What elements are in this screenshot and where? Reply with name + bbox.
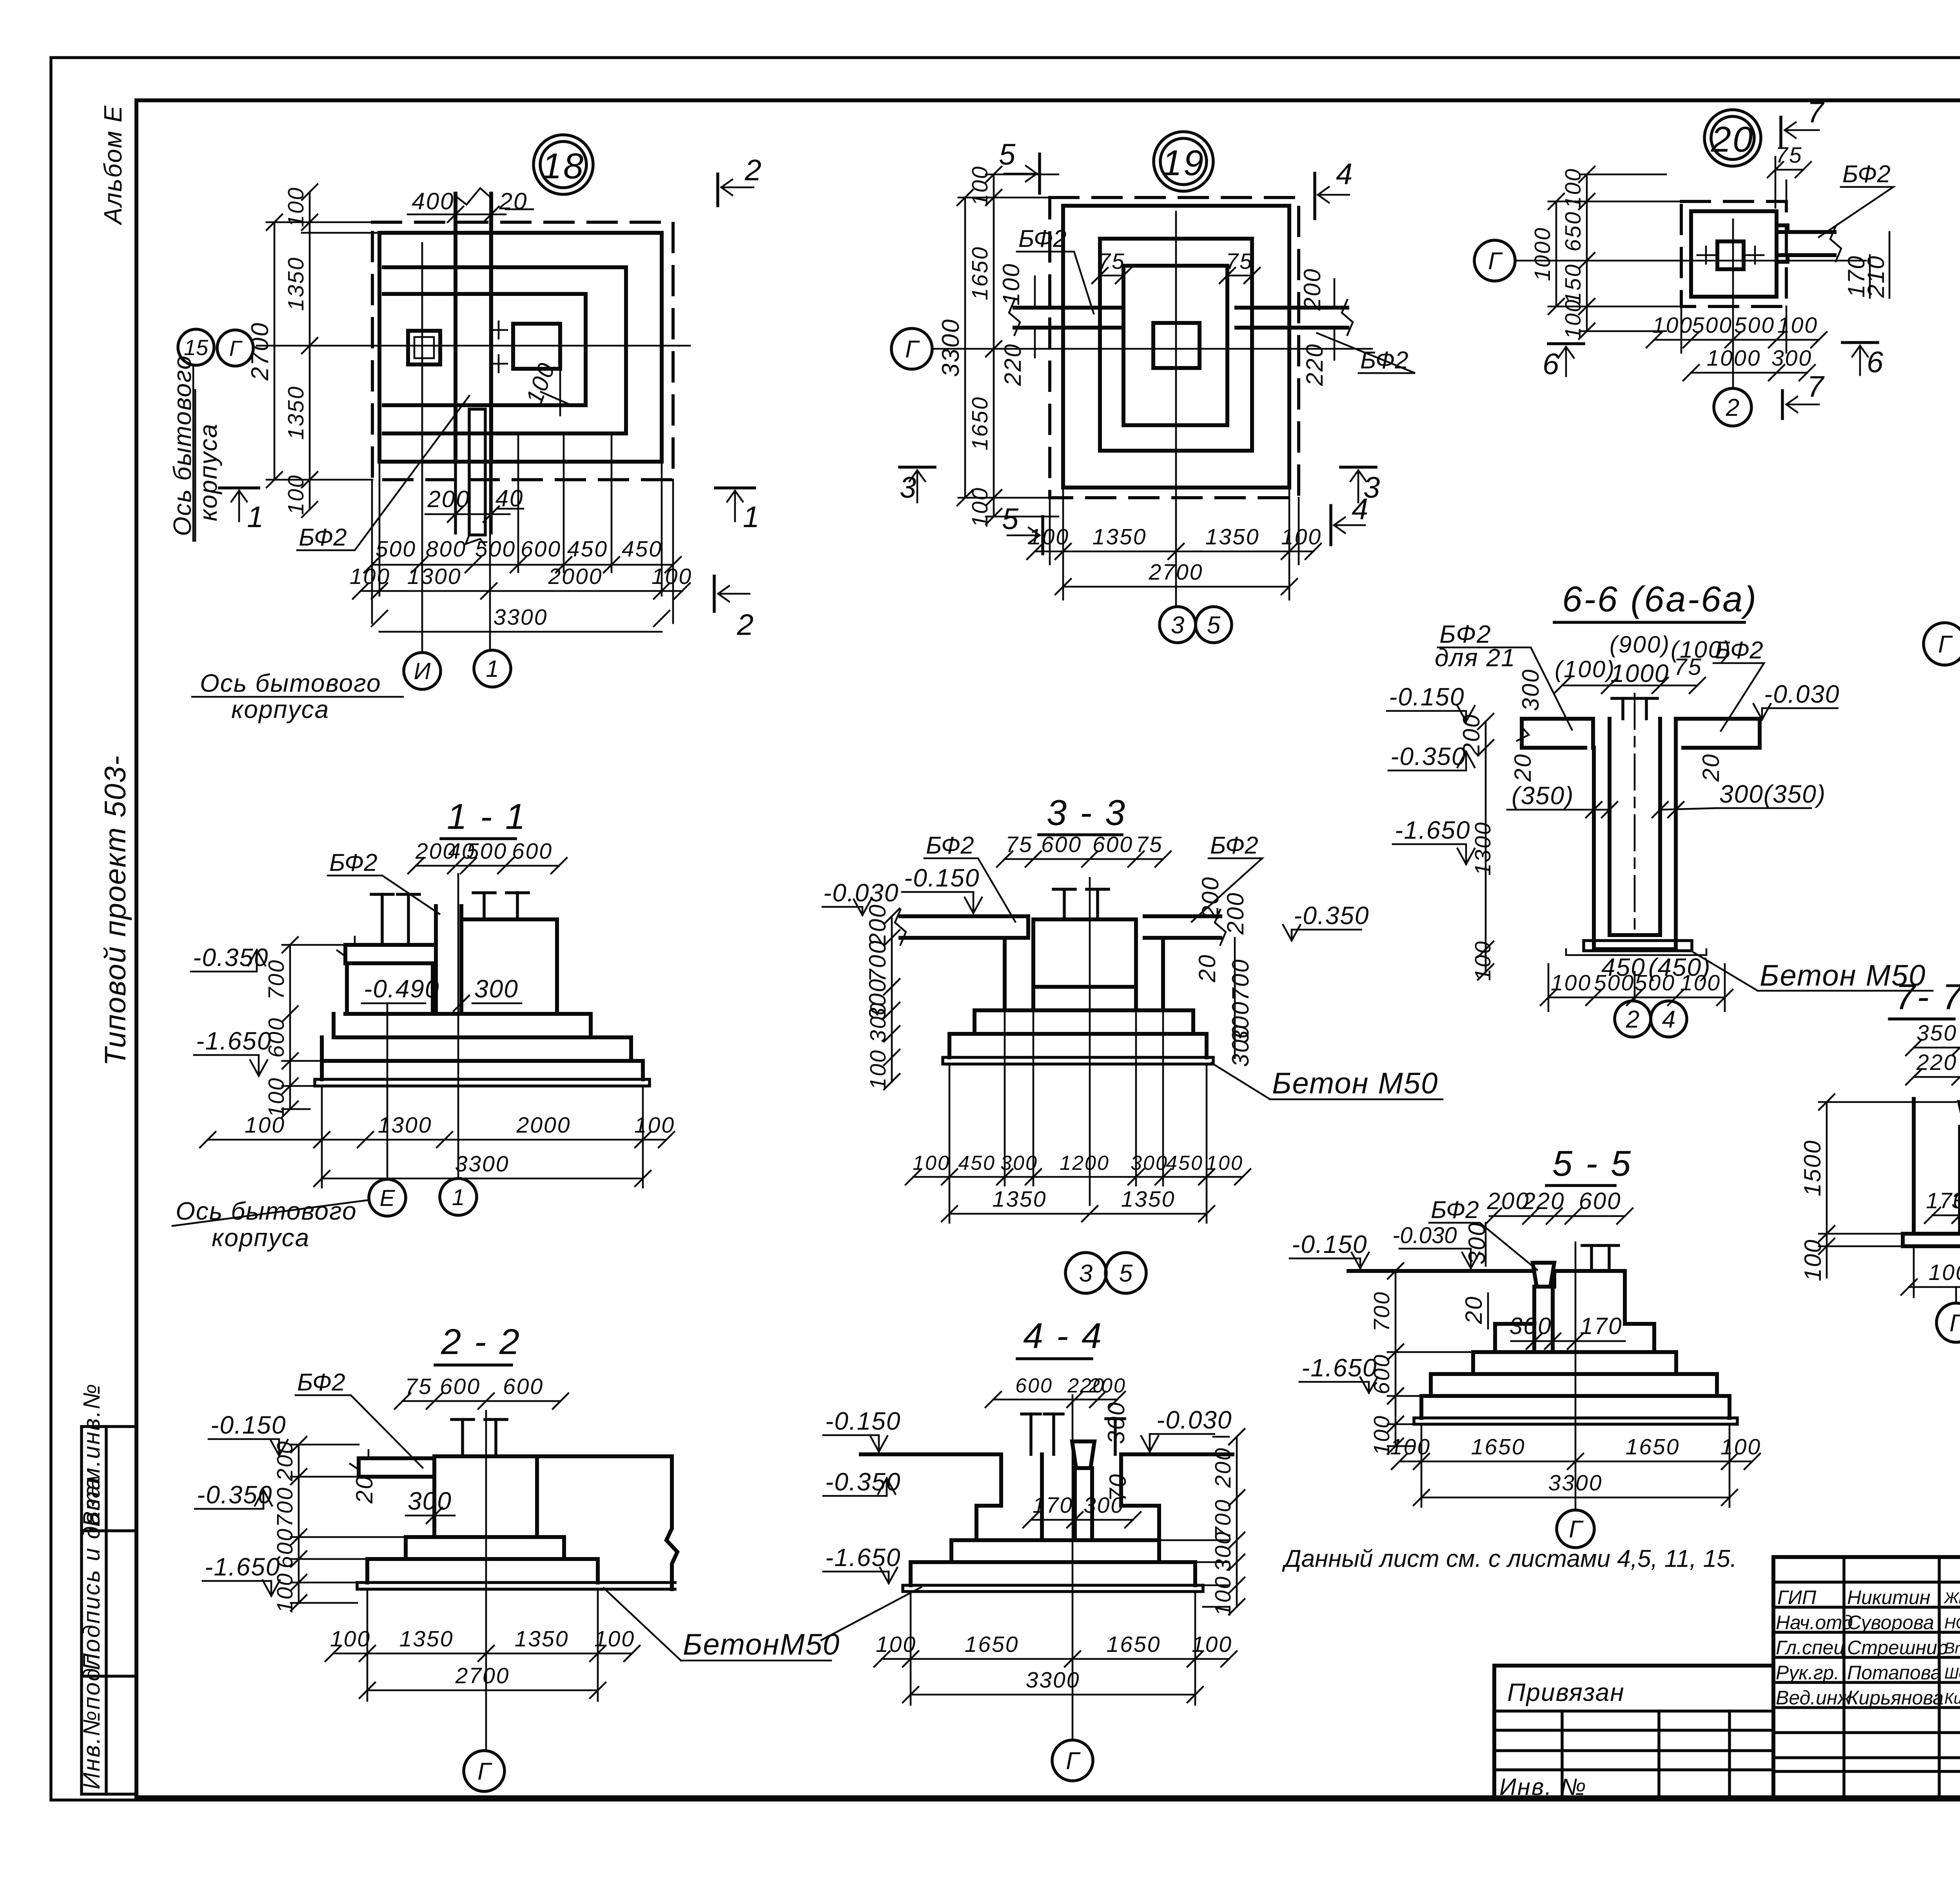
svg-text:450: 450 (958, 1152, 996, 1175)
svg-text:170: 170 (1033, 1493, 1073, 1518)
dim 200/40 at beam bottom (425, 513, 510, 515)
5-5 right block (1554, 1271, 1625, 1324)
svg-text:100: 100 (1210, 1575, 1236, 1616)
plan 18 left column (408, 331, 440, 364)
svg-text:6: 6 (1867, 346, 1884, 379)
section mark 4 top (1313, 173, 1316, 219)
plan 19 outer slab (1063, 206, 1289, 488)
svg-text:БФ2: БФ2 (1018, 225, 1067, 252)
dim row 1000 300 (1691, 372, 1807, 374)
svg-text:2: 2 (737, 608, 754, 642)
svg-text:600: 600 (272, 1528, 298, 1568)
svg-text:5: 5 (1207, 612, 1221, 639)
svg-text:210: 210 (1863, 255, 1889, 298)
svg-text:200: 200 (272, 1440, 298, 1481)
svg-text:Ось бытового: Ось бытового (168, 355, 196, 536)
svg-text:220: 220 (1000, 343, 1026, 386)
svg-text:Рук.гр.: Рук.гр. (1776, 1662, 1839, 1684)
svg-text:-0.150: -0.150 (825, 1407, 901, 1435)
plan 20 dashed boundary (1681, 201, 1786, 306)
svg-text:1350: 1350 (1205, 524, 1260, 549)
axis 1 vertical centerline (489, 219, 491, 649)
left vertical dims 100 1650 1650 100 (993, 174, 995, 517)
svg-text:300: 300 (1771, 346, 1812, 371)
6-6 left flange (1522, 719, 1593, 748)
svg-text:Вт: Вт (1944, 1640, 1960, 1657)
svg-text:Г: Г (229, 336, 243, 361)
dim 400/20 above strip (408, 214, 506, 216)
2-2 right break edge (666, 1456, 677, 1589)
svg-text:600: 600 (1579, 1188, 1621, 1214)
svg-text:300: 300 (1509, 1313, 1552, 1339)
3-3 pedestal (1033, 919, 1136, 1010)
svg-text:100: 100 (1206, 1152, 1243, 1175)
1-1 column (436, 906, 461, 1014)
6-6 pocket walls (1594, 748, 1676, 949)
svg-text:Жмн: Жмн (1944, 1590, 1960, 1607)
bottom dims 100 1300 2000 100 (208, 1139, 666, 1141)
svg-text:2700: 2700 (1149, 560, 1203, 585)
title block left attachment table (1494, 1666, 1773, 1800)
bottom dim 3300 (1421, 1497, 1730, 1499)
4-4 centerline (1072, 1395, 1074, 1740)
dim row 100 500 500 100 (1681, 306, 1786, 353)
svg-text:-0.350: -0.350 (1390, 742, 1466, 770)
svg-text:НСу: НСу (1944, 1615, 1960, 1632)
axis И vertical centerline (421, 243, 423, 651)
svg-text:ГИП: ГИП (1777, 1586, 1817, 1608)
svg-text:220: 220 (1301, 343, 1328, 386)
svg-text:Бетон М50: Бетон М50 (1272, 1067, 1438, 1100)
svg-text:2 - 2: 2 - 2 (441, 1322, 521, 1362)
svg-text:20: 20 (1510, 753, 1536, 782)
svg-text:1350: 1350 (283, 257, 309, 311)
svg-text:1350: 1350 (515, 1626, 569, 1651)
plan 19 vertical centerline (1175, 212, 1177, 605)
svg-text:1 - 1: 1 - 1 (447, 797, 527, 837)
svg-text:100: 100 (1551, 970, 1592, 995)
svg-text:600: 600 (1093, 832, 1133, 857)
top dims 600 220 200 (993, 1399, 1117, 1401)
svg-text:-0.030: -0.030 (1156, 1406, 1232, 1434)
left vertical dim 3300 (964, 198, 966, 498)
top dims 75 600 600 (403, 1400, 561, 1402)
2-2 top slab line to break (434, 1454, 672, 1458)
section mark 6 bottom left (1548, 342, 1584, 345)
svg-text:7: 7 (1807, 370, 1825, 403)
svg-text:1000: 1000 (1610, 659, 1669, 687)
axis bubble Г (1052, 1740, 1093, 1781)
svg-text:600: 600 (512, 839, 553, 864)
axis 5 bubble (1196, 607, 1232, 643)
mid dims 170 300 (1031, 1519, 1133, 1521)
left rotated dims 700 600 100 (1395, 1271, 1397, 1446)
svg-text:650: 650 (1561, 211, 1586, 252)
svg-text:корпуса: корпуса (194, 423, 222, 521)
svg-text:Привязан: Привязан (1507, 1678, 1625, 1706)
svg-text:100: 100 (998, 263, 1024, 305)
svg-text:2000: 2000 (516, 1113, 571, 1138)
svg-text:1: 1 (486, 656, 499, 682)
svg-text:100: 100 (264, 1077, 289, 1118)
svg-text:(350): (350) (1512, 781, 1574, 810)
svg-text:БФ2: БФ2 (926, 832, 974, 859)
svg-text:220: 220 (1522, 1188, 1565, 1214)
3-3 anchors (1063, 889, 1066, 919)
section mark 2 top right (716, 174, 719, 206)
svg-text:300: 300 (1103, 1401, 1129, 1444)
5-5 centerline (1575, 1242, 1577, 1509)
dim 75 top (1775, 169, 1803, 171)
plan 19 dashed boundary (1050, 198, 1299, 498)
4-4 base (911, 1562, 1195, 1585)
dim 75 left flange (1100, 275, 1123, 277)
svg-text:1000: 1000 (1530, 227, 1555, 281)
5-5 ground line left (1348, 1269, 1534, 1273)
plan 18 inner step (384, 294, 586, 405)
3-3 centerline (1089, 878, 1091, 1205)
left vertical dims 1500 (1826, 1102, 1828, 1234)
svg-text:600: 600 (521, 537, 561, 562)
svg-text:300: 300 (1227, 1024, 1254, 1067)
svg-text:3300: 3300 (937, 318, 964, 377)
svg-text:1650: 1650 (1107, 1632, 1161, 1657)
5-5 base (1421, 1396, 1730, 1418)
svg-text:1000: 1000 (1707, 346, 1761, 371)
1-1 left flange (345, 945, 436, 963)
bottom dim 3300 (911, 1694, 1195, 1696)
3-3 right flange (1145, 916, 1220, 938)
svg-text:Нач.отд: Нач.отд (1776, 1612, 1853, 1633)
bottom dims 1350 1350 (949, 1213, 1207, 1215)
svg-text:18: 18 (542, 146, 585, 186)
plan 18 right column (513, 324, 560, 369)
svg-text:2000: 2000 (548, 564, 603, 589)
plan 20 right beam (1777, 225, 1835, 262)
svg-text:Подпись и дата: Подпись и дата (78, 1476, 105, 1670)
svg-text:200: 200 (1197, 876, 1223, 919)
svg-text:75: 75 (1005, 832, 1033, 857)
svg-text:1650: 1650 (965, 1632, 1019, 1657)
svg-text:4: 4 (1352, 493, 1369, 526)
svg-text:300: 300 (1210, 1531, 1236, 1572)
bottom dims 100 450 300 1200 300 450 100 (913, 1176, 1243, 1178)
svg-text:1650: 1650 (1626, 1434, 1680, 1459)
svg-text:Г: Г (477, 1758, 492, 1785)
svg-text:600: 600 (503, 1374, 544, 1399)
svg-text:100: 100 (283, 187, 309, 227)
plan 19 column (1153, 323, 1200, 368)
svg-text:3300: 3300 (455, 1151, 510, 1177)
4-4 concrete leader (821, 1587, 921, 1640)
svg-text:Вед.инж: Вед.инж (1776, 1687, 1852, 1709)
svg-text:100: 100 (913, 1152, 950, 1175)
svg-text:100: 100 (1281, 524, 1322, 549)
svg-text:75: 75 (405, 1374, 432, 1399)
svg-text:Ось бытового: Ось бытового (200, 669, 381, 697)
svg-text:1350: 1350 (283, 386, 309, 440)
svg-text:Г: Г (1938, 631, 1953, 658)
dim row 100 1350 1350 100 (1050, 488, 1299, 600)
1-1 left pedestal (347, 963, 433, 1014)
svg-text:19: 19 (1162, 143, 1205, 183)
bottom dim 2700 (367, 1690, 598, 1691)
svg-text:БФ2: БФ2 (1210, 832, 1258, 859)
4-4 ground line right (1121, 1452, 1232, 1456)
svg-text:Никитин: Никитин (1847, 1586, 1930, 1608)
svg-text:-0.150: -0.150 (211, 1411, 286, 1439)
svg-text:-0.030: -0.030 (1392, 1223, 1457, 1248)
7-7 pit walls (1914, 1099, 1960, 1234)
svg-text:100: 100 (272, 1572, 298, 1613)
3-3 step (975, 1010, 1193, 1034)
svg-text:5: 5 (1119, 1260, 1133, 1287)
svg-text:20: 20 (1698, 753, 1724, 782)
2-2 step (406, 1537, 564, 1559)
plan 19 left beam (1014, 308, 1123, 328)
svg-text:1350: 1350 (993, 1187, 1047, 1212)
axis bubble Г (1955, 1287, 1957, 1303)
extension verticals below plan (372, 433, 673, 623)
svg-text:20: 20 (1194, 954, 1220, 983)
svg-text:75: 75 (1226, 249, 1253, 274)
1-1 anchor bolts left (381, 894, 384, 945)
svg-text:1350: 1350 (399, 1626, 454, 1651)
top dim line (1562, 685, 1697, 687)
svg-text:1000: 1000 (1929, 1260, 1960, 1285)
svg-text:600: 600 (1015, 1374, 1053, 1397)
dim row 100 1300 2000 100 (361, 590, 682, 592)
5-5 column (1534, 1287, 1553, 1352)
svg-text:-0.150: -0.150 (904, 864, 980, 892)
section mark 7 bottom (1781, 391, 1784, 419)
svg-text:70: 70 (1105, 1473, 1131, 1502)
plan 18 dashed pit boundary (372, 222, 673, 480)
plan 19 inner step (1123, 266, 1227, 425)
svg-text:75: 75 (1098, 249, 1125, 274)
svg-text:220: 220 (1916, 1050, 1957, 1075)
top dims 350 650 (1914, 1047, 1960, 1049)
left vertical dim 100 1350 1350 100 (309, 192, 311, 509)
svg-text:700: 700 (1369, 1291, 1394, 1332)
6-6 base (1594, 947, 1676, 951)
svg-text:300: 300 (408, 1487, 452, 1515)
bottom dims 100 1650 1650 100 (1399, 1461, 1752, 1463)
svg-text:500: 500 (1692, 313, 1733, 338)
svg-text:7: 7 (1807, 96, 1825, 129)
svg-text:200: 200 (1299, 268, 1325, 311)
svg-text:450: 450 (622, 537, 662, 562)
svg-text:700: 700 (864, 939, 891, 982)
svg-text:75: 75 (1775, 143, 1802, 168)
svg-text:-1.650: -1.650 (196, 1027, 272, 1055)
svg-text:Суворова: Суворова (1847, 1612, 1934, 1633)
svg-text:100: 100 (330, 1626, 371, 1651)
1-1 step 3 (334, 1014, 631, 1061)
axis bubble Г (464, 1751, 505, 1791)
svg-text:450: 450 (1166, 1152, 1203, 1175)
svg-text:100: 100 (634, 1113, 675, 1138)
section mark 1 right (715, 486, 755, 489)
svg-text:Стрешнир: Стрешнир (1847, 1637, 1948, 1659)
svg-text:500: 500 (1734, 313, 1775, 338)
section mark 3 right (1341, 466, 1376, 469)
svg-text:100: 100 (350, 564, 390, 589)
plan 18 middle step (384, 267, 626, 433)
svg-text:1300: 1300 (1470, 821, 1495, 876)
section mark 3 left (900, 466, 935, 469)
plan 20 slab (1691, 211, 1777, 297)
svg-text:Г: Г (905, 336, 920, 363)
svg-text:3300: 3300 (1026, 1668, 1080, 1693)
svg-text:БФ2: БФ2 (1842, 161, 1891, 188)
bottom dims 1000 100 (1909, 1286, 1960, 1288)
svg-text:1350: 1350 (1093, 524, 1147, 549)
svg-text:1650: 1650 (967, 246, 993, 301)
dim 75 right flange (1227, 275, 1252, 277)
svg-text:6-6 (6а-6а): 6-6 (6а-6а) (1562, 579, 1758, 619)
bottom dims 100 500 500 100 (1548, 997, 1725, 999)
svg-text:3: 3 (1171, 612, 1184, 639)
svg-text:5: 5 (999, 138, 1016, 171)
svg-text:1650: 1650 (1471, 1434, 1526, 1459)
svg-text:7- 7: 7- 7 (1895, 977, 1960, 1017)
svg-text:1300: 1300 (407, 564, 462, 589)
2-2 anchors (461, 1419, 464, 1456)
section mark 1 bottom left (220, 486, 259, 489)
section mark 4 bottom (1329, 506, 1332, 545)
svg-text:200: 200 (1222, 892, 1249, 935)
svg-text:100: 100 (967, 165, 993, 206)
1-1 step 2 (345, 1014, 591, 1037)
left vertical dims 200 1300 100 (1485, 721, 1487, 972)
svg-text:2: 2 (1726, 394, 1739, 421)
axis Г centerline (1516, 260, 1866, 262)
axis 1 bubble (474, 650, 511, 687)
axis 3 bubble (1160, 607, 1196, 643)
2-2 concrete layer (357, 1583, 675, 1589)
svg-text:100: 100 (1029, 524, 1069, 549)
svg-text:1: 1 (247, 500, 264, 534)
svg-text:Инв.№подл.: Инв.№подл. (78, 1645, 105, 1789)
svg-text:Г: Г (1949, 1310, 1960, 1337)
axis Г horizontal centerline (257, 345, 690, 347)
5-5 concrete layer (1414, 1418, 1737, 1424)
axis bubble Г (1557, 1510, 1594, 1548)
svg-text:БФ2: БФ2 (329, 849, 377, 876)
plan 18 beam strip top break (456, 188, 491, 205)
svg-text:400: 400 (412, 188, 454, 214)
svg-text:-0.150: -0.150 (1389, 683, 1465, 711)
svg-text:3 - 3: 3 - 3 (1047, 793, 1127, 833)
svg-text:Г: Г (1066, 1748, 1081, 1775)
dim row 3300 (379, 631, 662, 633)
svg-text:600: 600 (440, 1374, 481, 1399)
bottom dims 100 1350 1350 100 (333, 1653, 632, 1655)
svg-text:-0.030: -0.030 (1764, 680, 1840, 708)
svg-text:100: 100 (245, 1113, 285, 1138)
svg-text:100: 100 (1470, 940, 1495, 981)
svg-text:100: 100 (1720, 1434, 1761, 1459)
svg-text:170: 170 (1580, 1313, 1622, 1339)
left vertical dim 2700 (274, 222, 276, 480)
svg-text:-0.490: -0.490 (364, 975, 439, 1003)
3-3 left flange (900, 916, 1028, 938)
svg-text:1300: 1300 (378, 1113, 432, 1138)
svg-text:700: 700 (272, 1486, 298, 1527)
4-4 left wall (976, 1454, 1042, 1540)
svg-text:И: И (414, 658, 431, 684)
1-1 concrete layer (315, 1079, 650, 1086)
6-6 centerline (1634, 694, 1636, 937)
3-3 base (949, 1034, 1207, 1057)
plan 18 beam strip vertical (456, 194, 491, 462)
plan 20 column (1717, 241, 1744, 269)
svg-text:4: 4 (1336, 158, 1353, 191)
svg-text:1200: 1200 (1060, 1152, 1110, 1175)
svg-text:450: 450 (567, 537, 608, 562)
left vertical dims 700 600 100 (289, 945, 291, 1109)
7-7 base flange (1903, 1234, 1960, 1246)
svg-text:20: 20 (499, 188, 528, 214)
4-4 anchors (1029, 1414, 1033, 1454)
4-4 concrete layer (903, 1585, 1203, 1592)
svg-text:3: 3 (900, 471, 917, 504)
axis bubbles 2 4 (1634, 972, 1636, 1000)
svg-text:5 - 5: 5 - 5 (1552, 1144, 1632, 1184)
2-2 left flange (359, 1458, 434, 1477)
svg-text:корпуса: корпуса (212, 1224, 310, 1252)
svg-text:-1.650: -1.650 (1395, 816, 1470, 844)
plan 18 outer foundation slab (379, 233, 662, 462)
top dims 200 40 500 600 (416, 865, 559, 867)
svg-text:-0.150: -0.150 (1292, 1230, 1367, 1258)
svg-text:500: 500 (376, 537, 416, 562)
detail 20 bubble (1704, 110, 1761, 166)
axis И bubble (404, 653, 441, 689)
section mark 2 bottom right (713, 576, 716, 611)
svg-text:300(350): 300(350) (1719, 780, 1826, 808)
svg-text:2: 2 (1626, 1006, 1639, 1033)
svg-text:4: 4 (1662, 1006, 1675, 1033)
svg-text:100: 100 (1800, 1238, 1826, 1281)
svg-text:Альбом Е: Альбом Е (99, 105, 127, 226)
svg-text:100: 100 (866, 1049, 891, 1090)
svg-text:100: 100 (594, 1626, 635, 1651)
axis bubbles 3 5 (1065, 1253, 1106, 1293)
svg-text:3300: 3300 (1548, 1470, 1603, 1496)
svg-text:4 - 4: 4 - 4 (1023, 1316, 1103, 1356)
svg-text:Е: Е (380, 1186, 396, 1211)
svg-text:Данный лист см. с листами: Данный лист см. с листами 4,5, 11, 15. (1282, 1545, 1737, 1572)
left rotated dims (891, 916, 893, 1082)
svg-text:100: 100 (1680, 970, 1721, 995)
2-2 pedestal (434, 1456, 537, 1537)
svg-text:20: 20 (1711, 120, 1754, 160)
svg-text:2700: 2700 (455, 1663, 510, 1688)
left rotated dims 200 700 600 100 (298, 1445, 300, 1603)
plan 20 column ticks (1697, 247, 1764, 264)
svg-text:Инв. №: Инв. № (1499, 1774, 1587, 1800)
plan 20 vertical centerline (1732, 219, 1734, 387)
svg-text:20: 20 (1461, 1296, 1487, 1325)
svg-text:БетонМ50: БетонМ50 (683, 1628, 840, 1661)
svg-text:700: 700 (264, 959, 289, 1000)
svg-text:БФ2: БФ2 (299, 524, 347, 551)
svg-text:3: 3 (1079, 1260, 1093, 1287)
svg-text:5: 5 (1002, 502, 1019, 536)
svg-text:600: 600 (1041, 832, 1082, 857)
